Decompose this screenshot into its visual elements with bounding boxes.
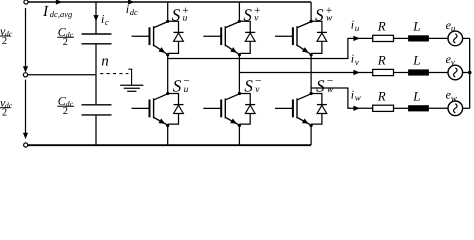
svg-text:S: S — [316, 77, 325, 96]
label n (neutral point) — [101, 54, 109, 70]
svg-text:L: L — [412, 89, 420, 104]
wire: capacitor branch lower stem — [95, 115, 97, 145]
label i_v — [351, 52, 359, 67]
svg-text:2: 2 — [2, 36, 7, 47]
svg-text:R: R — [377, 89, 386, 104]
label C_dc/2 (upper) — [57, 25, 74, 48]
wire: leg v bottom segment — [238, 126, 240, 146]
svg-text:L: L — [412, 53, 420, 68]
label R (phase v) — [377, 53, 386, 68]
svg-text:S: S — [173, 77, 182, 96]
svg-text:n: n — [101, 54, 109, 70]
svg-text:i: i — [101, 12, 104, 26]
voltage arrow v_dc/2 (lower half) — [23, 80, 28, 139]
label S_u- — [173, 75, 190, 95]
label L (phase u) — [412, 19, 420, 34]
svg-text:v: v — [451, 57, 455, 67]
IGBT switch S_w+ with antiparallel diode — [275, 20, 327, 57]
wire: L to source (phase v) — [429, 72, 448, 74]
wire: leg w middle segment — [310, 55, 312, 94]
svg-text:2: 2 — [63, 106, 68, 117]
wire: bottom DC rail — [28, 144, 311, 146]
svg-text:L: L — [412, 19, 420, 34]
label S_w+ — [315, 5, 333, 24]
svg-text:R: R — [377, 53, 386, 68]
svg-text:R: R — [377, 19, 386, 34]
voltage arrow v_dc/2 (upper half) — [23, 8, 28, 73]
wire: R to L (phase w) — [394, 107, 409, 109]
svg-text:u: u — [451, 23, 456, 33]
svg-text:S: S — [172, 5, 181, 24]
label R (phase w) — [377, 89, 386, 104]
svg-text:dc: dc — [130, 7, 138, 17]
svg-text:i: i — [351, 52, 354, 66]
label i_dc — [126, 2, 138, 17]
wire: phase w output — [311, 88, 373, 108]
svg-text:I: I — [42, 3, 49, 20]
IGBT switch S_u- with antiparallel diode — [132, 92, 184, 127]
wire: source to neutral bus (phase v) — [463, 72, 470, 74]
wire: capacitor branch upper stem — [95, 2, 97, 34]
AC source e_u — [448, 31, 463, 46]
wire: top DC rail — [28, 1, 311, 3]
wire: leg u top segment — [167, 2, 169, 21]
label S_v+ — [243, 5, 260, 24]
wire: leg v top segment — [238, 2, 240, 21]
capacitor C_dc/2 (lower) — [82, 105, 112, 115]
wire: capacitor branch middle stem (upper) — [95, 44, 97, 75]
svg-text:w: w — [327, 85, 334, 95]
svg-text:S: S — [243, 5, 252, 24]
wire: dashed link n to ground — [100, 73, 128, 75]
svg-text:i: i — [351, 17, 354, 31]
inductor L (phase v) — [408, 69, 429, 75]
svg-text:u: u — [184, 85, 189, 95]
terminal: midpoint n output — [23, 73, 27, 77]
wire: leg w top segment — [310, 2, 312, 21]
svg-text:w: w — [355, 93, 361, 103]
wire: R to L (phase u) — [394, 37, 409, 39]
svg-text:S: S — [315, 5, 324, 24]
inductor L (phase u) — [408, 35, 429, 41]
svg-text:2: 2 — [2, 108, 7, 119]
label i_w — [351, 87, 361, 102]
ground symbol — [120, 69, 143, 92]
label e_v — [446, 52, 455, 67]
node: neutral bus junction — [468, 71, 472, 75]
current arrow i_c — [93, 15, 98, 21]
terminal: DC bus negative input — [24, 143, 28, 147]
IGBT switch S_v+ with antiparallel diode — [203, 20, 255, 57]
current arrow i_w — [353, 106, 359, 111]
resistor R (phase u) — [373, 35, 394, 41]
wire: R to L (phase v) — [394, 72, 409, 74]
terminal: DC bus positive input — [24, 0, 28, 4]
AC source e_v — [448, 65, 463, 80]
wire: capacitor branch middle stem (lower) — [95, 75, 97, 105]
svg-text:w: w — [326, 14, 333, 24]
label S_w- — [316, 75, 334, 95]
wire: leg w bottom segment — [310, 126, 312, 146]
wire: source to neutral bus (phase w) — [463, 107, 470, 109]
label e_w — [446, 88, 457, 103]
svg-text:dc,avg: dc,avg — [50, 9, 72, 19]
wire: L to source (phase u) — [429, 37, 448, 39]
wire: source to neutral bus (phase u) — [463, 37, 470, 39]
label I_dc,avg — [42, 3, 72, 20]
wire: leg u middle segment — [167, 55, 169, 94]
current arrow i_v — [353, 70, 359, 75]
wire: leg v middle segment — [238, 55, 240, 94]
IGBT switch S_w- with antiparallel diode — [275, 92, 327, 127]
wire: phase v output — [239, 72, 372, 74]
svg-text:v: v — [355, 57, 359, 67]
svg-text:u: u — [355, 23, 360, 33]
label R (phase u) — [377, 19, 386, 34]
svg-text:i: i — [351, 87, 354, 101]
IGBT switch S_u+ with antiparallel diode — [132, 20, 184, 57]
label C_dc/2 (lower) — [57, 94, 74, 117]
wire: right neutral bus — [469, 38, 471, 108]
label i_c — [101, 12, 109, 27]
svg-text:i: i — [126, 2, 129, 16]
current arrow i_dc — [128, 0, 134, 5]
label i_u — [351, 17, 360, 32]
svg-text:u: u — [183, 14, 188, 24]
svg-text:2: 2 — [63, 37, 68, 48]
label e_u — [446, 18, 456, 33]
resistor R (phase w) — [373, 105, 394, 111]
AC source e_w — [448, 101, 463, 116]
capacitor C_dc/2 (upper) — [82, 34, 112, 44]
wire: L to source (phase w) — [429, 107, 448, 109]
label L (phase w) — [412, 89, 420, 104]
label S_u+ — [172, 5, 189, 24]
svg-text:S: S — [244, 77, 253, 96]
IGBT switch S_v- with antiparallel diode — [203, 92, 255, 127]
inductor L (phase w) — [408, 105, 429, 111]
label L (phase v) — [412, 53, 420, 68]
current arrow i_u — [353, 36, 359, 41]
wire: phase u output — [168, 38, 373, 58]
label S_v- — [244, 75, 261, 95]
label v_dc/2 (upper) — [0, 24, 13, 47]
label v_dc/2 (lower) — [0, 95, 13, 118]
svg-text:w: w — [451, 93, 457, 103]
wire: leg u bottom segment — [167, 126, 169, 146]
current arrow I_dc,avg — [56, 0, 62, 5]
resistor R (phase v) — [373, 69, 394, 75]
wire: midpoint wire to n — [28, 74, 96, 76]
svg-text:c: c — [105, 17, 109, 27]
